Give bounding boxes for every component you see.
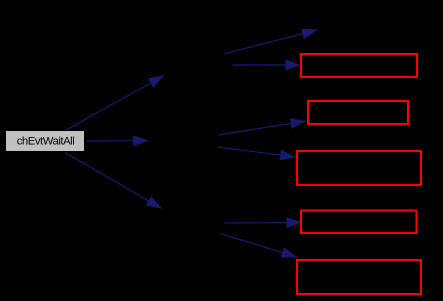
svg-text:chEvtWaitAll: chEvtWaitAll xyxy=(17,135,75,147)
red box 3 (truncated node, two-line) xyxy=(297,151,421,185)
wire: edge node3 -> red box 5 xyxy=(220,234,297,258)
wire: edge chEvtWaitAll -> node2 (invisible) xyxy=(86,140,149,142)
red box 4 (truncated node) xyxy=(301,211,417,234)
wire: edge chEvtWaitAll -> node3 (invisible) xyxy=(65,153,162,209)
wire: edge node2 -> red box 2 xyxy=(219,121,307,135)
wire: edge node3 -> red box 4 xyxy=(224,222,302,225)
wire: edge node1 -> red box 1 xyxy=(233,64,302,66)
node chEvtWaitAll (current node, grey fill) xyxy=(6,131,85,152)
wire: edge chEvtWaitAll -> node1 (invisible) xyxy=(66,76,164,131)
red box 2 (truncated node) xyxy=(308,101,408,124)
wire: edge node2 -> red box 3 xyxy=(218,147,296,157)
red box 1 (truncated node) xyxy=(301,54,417,77)
red box 5 (truncated node, two-line) xyxy=(297,260,421,294)
wire: edge node1 -> top-right invisible node xyxy=(225,30,318,54)
